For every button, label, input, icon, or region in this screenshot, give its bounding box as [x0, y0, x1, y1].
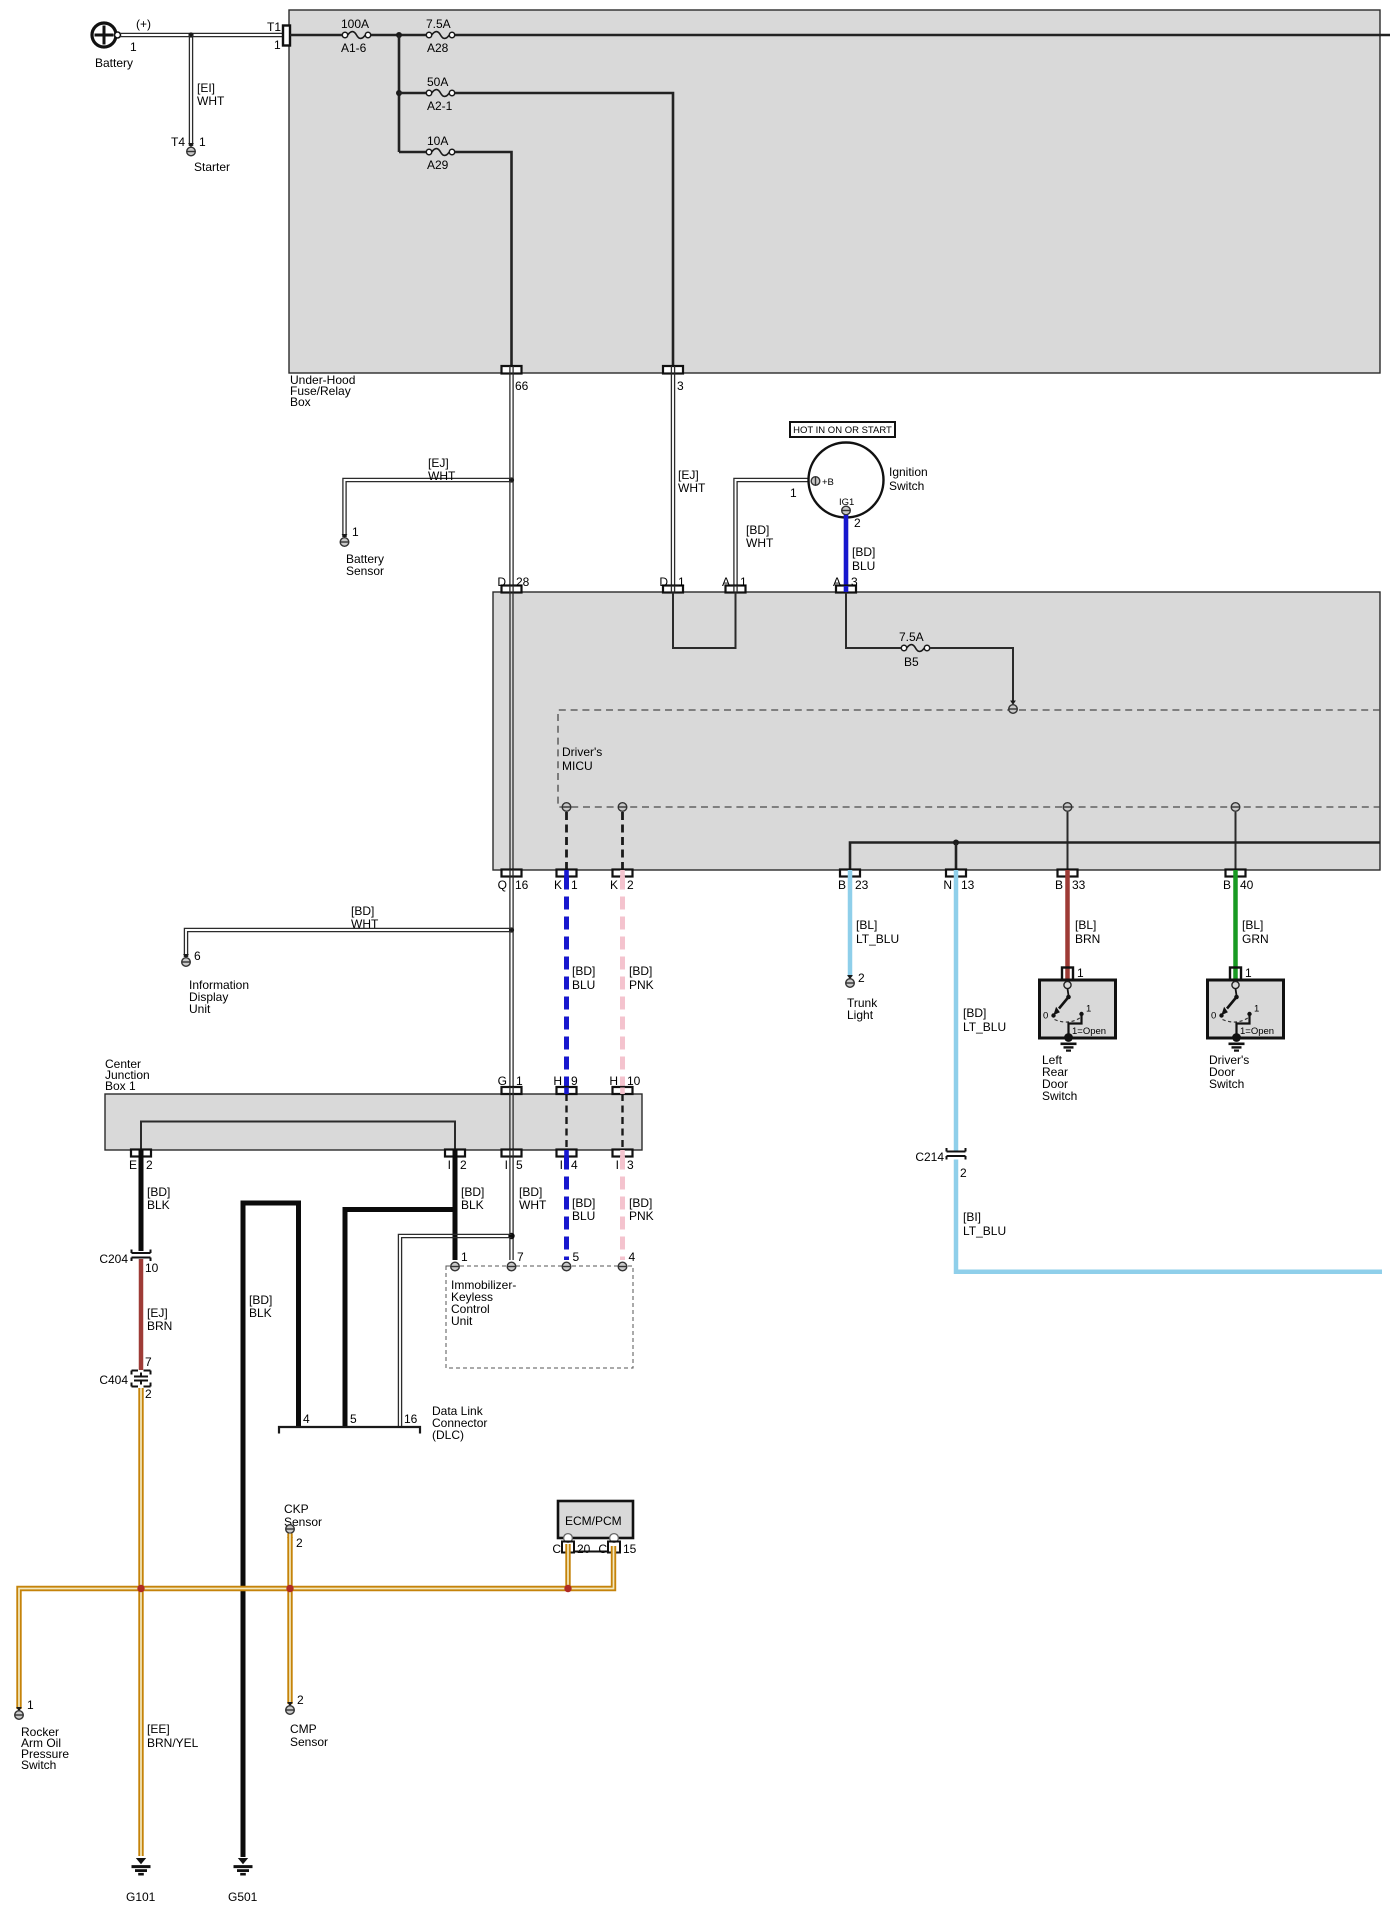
pin I5 — [502, 1150, 524, 1173]
svg-text:[BL]: [BL] — [856, 918, 877, 932]
svg-text:Starter: Starter — [194, 160, 230, 174]
wire overlay pin D28 — [510, 586, 513, 593]
wire overlay H9 pin — [564, 1088, 569, 1095]
svg-text:100A: 100A — [341, 17, 369, 31]
fuse 7.5A B5 — [899, 630, 930, 669]
svg-text:[BD]: [BD] — [746, 523, 769, 537]
wire [EJ] WHT pin66 to D28 — [510, 374, 513, 586]
wire main bus in box1 — [290, 34, 1390, 37]
svg-text:A1-6: A1-6 — [341, 41, 367, 55]
immobilizer pin 7 — [507, 1250, 524, 1271]
svg-text:K: K — [554, 878, 562, 892]
svg-text:[BD]: [BD] — [461, 1185, 484, 1199]
svg-text:1: 1 — [130, 40, 137, 54]
wire overlay E2 pin — [139, 1150, 144, 1157]
immobilizer-keyless control unit — [446, 1266, 633, 1368]
battery — [92, 17, 151, 70]
wire overlay pin Q16 — [510, 870, 513, 877]
svg-text:7: 7 — [517, 1250, 524, 1264]
wire H9 to I4 inside CJB — [565, 1094, 567, 1150]
under-hood fuse/relay box — [289, 10, 1380, 373]
pin H10 — [609, 1074, 640, 1094]
node junction at 50A branch — [396, 90, 402, 96]
wire CKP to CMP — [287, 1534, 292, 1705]
wire battery to T1 — [120, 33, 285, 36]
svg-text:(+): (+) — [136, 17, 151, 31]
pin Q16 — [498, 870, 529, 893]
dashed stub wire to K1 — [565, 812, 568, 869]
pin D28 — [497, 575, 529, 593]
svg-text:GRN: GRN — [1242, 932, 1269, 946]
wire [EJ] BRN C204 to C404 — [141, 1259, 172, 1370]
wire branch down — [398, 35, 401, 152]
svg-text:[BD]: [BD] — [519, 1185, 542, 1199]
svg-text:[BD]: [BD] — [629, 1196, 652, 1210]
svg-text:5: 5 — [516, 1158, 523, 1172]
dashed stub wire to K2 — [621, 812, 624, 869]
svg-text:[BI]: [BI] — [963, 1210, 981, 1224]
svg-text:1: 1 — [27, 1698, 34, 1712]
wire bus to B23/N13 — [850, 843, 1380, 870]
svg-text:16: 16 — [404, 1412, 418, 1426]
wire [BL] GRN B40 to driver's door switch — [1236, 877, 1269, 981]
svg-text:33: 33 — [1072, 878, 1086, 892]
svg-text:2: 2 — [297, 1693, 304, 1707]
wire G1 to I5 inside CJB — [510, 1094, 513, 1150]
wire overlay A3 pin — [844, 586, 849, 592]
pin I3 — [613, 1150, 635, 1173]
svg-text:16: 16 — [515, 878, 529, 892]
MICU pin B40 stub — [1231, 803, 1240, 812]
svg-text:2: 2 — [296, 1536, 303, 1550]
svg-text:LT_BLU: LT_BLU — [963, 1224, 1006, 1238]
wire [BD] BLK I2 net to immobilizer pin1 and DLC 5 — [345, 1157, 484, 1427]
wire [EE] BRN/YEL orange bus — [19, 1546, 614, 1709]
wire [BD] WHT A1 to ignition +B — [734, 478, 811, 585]
ECM/PCM — [558, 1501, 633, 1542]
svg-text:10: 10 — [627, 1074, 641, 1088]
svg-text:Ignition: Ignition — [889, 465, 928, 479]
wire [BD] BLU K1 to H9 — [567, 877, 596, 1088]
wire E2 to I2 inside CJB — [141, 1122, 455, 1150]
svg-text:E: E — [129, 1158, 137, 1172]
wire [EI] WHT to starter — [189, 35, 225, 146]
svg-text:Switch: Switch — [1209, 1077, 1244, 1091]
wire overlay B23 pin — [848, 870, 853, 877]
svg-text:2: 2 — [145, 1387, 152, 1401]
ground G101 — [126, 1858, 156, 1904]
pin I2 — [445, 1150, 467, 1173]
wire branch to DLC 16 — [398, 1234, 511, 1426]
trunk light terminal — [846, 971, 879, 1022]
svg-text:A: A — [722, 575, 730, 589]
svg-text:BLU: BLU — [572, 978, 595, 992]
pin K2 — [610, 870, 634, 893]
pin N13 — [943, 870, 974, 893]
svg-text:50A: 50A — [427, 75, 448, 89]
svg-text:7: 7 — [145, 1355, 152, 1369]
svg-text:4: 4 — [571, 1158, 578, 1172]
wire overlay K2 pin — [620, 870, 625, 877]
svg-text:PNK: PNK — [629, 978, 654, 992]
svg-text:9: 9 — [571, 1074, 578, 1088]
center junction box 1 — [105, 1094, 642, 1150]
svg-text:WHT: WHT — [197, 94, 225, 108]
wire branch to information display unit — [184, 928, 511, 957]
svg-text:Sensor: Sensor — [290, 1735, 328, 1749]
svg-text:[EI]: [EI] — [197, 81, 215, 95]
svg-text:Q: Q — [498, 878, 507, 892]
svg-text:1: 1 — [740, 575, 747, 589]
svg-text:D: D — [497, 575, 506, 589]
connector C404 — [132, 1371, 151, 1387]
pin B23 — [838, 870, 869, 893]
svg-text:BLK: BLK — [461, 1198, 484, 1212]
wire [BI] LT_BLU C214 to right — [956, 1160, 1382, 1272]
svg-text:B: B — [1223, 878, 1231, 892]
wire H10 to I3 inside CJB — [621, 1094, 623, 1150]
pin B33 — [1055, 870, 1086, 893]
fuse 50A A2-1 — [426, 75, 454, 113]
MICU pin B33 stub — [1063, 803, 1072, 812]
svg-text:[EE]: [EE] — [147, 1722, 170, 1736]
HOT IN ON OR START tag — [790, 422, 895, 437]
svg-text:20: 20 — [577, 1542, 591, 1556]
svg-text:Light: Light — [847, 1008, 874, 1022]
CKP sensor terminal — [284, 1502, 322, 1550]
wire [BD] PNK I3 to immobilizer pin4 — [623, 1157, 654, 1261]
pin A1 — [722, 575, 747, 593]
wire overlay I3 pin — [620, 1150, 625, 1157]
svg-text:BRN/YEL: BRN/YEL — [147, 1736, 199, 1750]
svg-text:A: A — [833, 575, 841, 589]
svg-text:[BL]: [BL] — [1075, 918, 1096, 932]
wire overlay B33 pin — [1065, 870, 1070, 877]
wire C20 stub — [565, 1544, 570, 1589]
svg-text:10A: 10A — [427, 134, 448, 148]
svg-text:2: 2 — [858, 971, 865, 985]
junction battery sensor branch — [509, 477, 514, 482]
pin G1 — [498, 1074, 523, 1094]
wire C404 to G101 — [141, 1388, 199, 1856]
junction IDU branch — [509, 927, 514, 932]
wire overlay N13 pin — [954, 870, 959, 877]
pin C 15 — [574, 1542, 637, 1557]
immobilizer pin 4 — [618, 1250, 635, 1271]
svg-text:T1: T1 — [267, 20, 281, 34]
wire [BD] BLU I4 to immobilizer pin5 — [567, 1157, 596, 1261]
wire B33 stub — [1067, 812, 1069, 870]
svg-text:3: 3 — [851, 575, 858, 589]
svg-text:15: 15 — [623, 1542, 637, 1556]
wire overlay B40 pin — [1233, 870, 1238, 877]
svg-text:HOT IN ON OR START: HOT IN ON OR START — [793, 425, 892, 436]
wire to 50A fuse — [399, 92, 426, 95]
svg-text:Switch: Switch — [21, 1758, 56, 1772]
svg-text:I: I — [616, 1158, 619, 1172]
connector T1 — [267, 20, 290, 52]
svg-text:Switch: Switch — [889, 479, 924, 493]
immobilizer pin 1 — [451, 1250, 468, 1271]
svg-text:BLK: BLK — [249, 1306, 272, 1320]
wire [BD] BLK E2 to C204 — [141, 1157, 170, 1252]
svg-text:2: 2 — [854, 516, 861, 530]
svg-text:(DLC): (DLC) — [432, 1428, 464, 1442]
svg-text:10: 10 — [145, 1261, 159, 1275]
svg-text:Unit: Unit — [451, 1314, 473, 1328]
ignition switch — [790, 443, 928, 531]
CMP sensor terminal — [286, 1693, 328, 1749]
svg-text:2: 2 — [627, 878, 634, 892]
svg-text:N: N — [943, 878, 952, 892]
svg-text:T4: T4 — [171, 135, 185, 149]
svg-text:WHT: WHT — [678, 481, 706, 495]
wire overlay pin G1 — [510, 1087, 513, 1094]
wire overlay pin D1 — [671, 586, 674, 593]
svg-text:4: 4 — [629, 1250, 636, 1264]
wire overlay K1 pin — [564, 870, 569, 877]
MICU pin (from B5) — [1009, 701, 1018, 714]
wire A3 to fuse B5 — [846, 593, 901, 649]
svg-text:40: 40 — [1240, 878, 1254, 892]
svg-text:BLK: BLK — [147, 1198, 170, 1212]
svg-text:WHT: WHT — [428, 469, 456, 483]
wire [BD] WHT Q16 to G1 — [351, 877, 513, 1088]
svg-text:1: 1 — [352, 525, 359, 539]
svg-text:3: 3 — [677, 379, 684, 393]
wire overlay pin 3 — [671, 366, 674, 374]
svg-text:1: 1 — [790, 486, 797, 500]
pin D1 — [659, 575, 685, 593]
driver's door switch — [1208, 966, 1284, 1051]
svg-text:[BD]: [BD] — [351, 904, 374, 918]
fuse 10A A29 — [426, 134, 454, 172]
fuse 7.5A A28 — [426, 17, 455, 55]
wire overlay H10 pin — [620, 1088, 625, 1095]
wire [BD] WHT I5 to immobilizer pin7 — [510, 1157, 547, 1261]
junction orange at CKP — [286, 1585, 293, 1592]
wire overlay pin 66 — [510, 366, 513, 374]
wire 10A to pin 66 — [455, 152, 512, 366]
svg-text:2: 2 — [960, 1166, 967, 1180]
svg-text:+B: +B — [822, 477, 834, 488]
svg-text:G501: G501 — [228, 1890, 258, 1904]
pin 3 — [663, 366, 684, 393]
svg-text:28: 28 — [516, 575, 530, 589]
svg-text:PNK: PNK — [629, 1209, 654, 1223]
left rear door switch — [1040, 966, 1116, 1051]
svg-text:13: 13 — [961, 878, 975, 892]
svg-text:Box: Box — [290, 395, 311, 409]
svg-text:WHT: WHT — [746, 536, 774, 550]
svg-text:Battery: Battery — [95, 56, 133, 70]
driver's MICU outer box — [493, 592, 1380, 870]
pin 66 — [502, 366, 529, 393]
junction orange at C20 — [564, 1585, 571, 1592]
svg-text:1: 1 — [516, 1074, 523, 1088]
svg-text:MICU: MICU — [562, 759, 593, 773]
svg-text:BRN: BRN — [1075, 932, 1100, 946]
battery sensor terminal — [340, 525, 384, 578]
svg-text:2: 2 — [146, 1158, 153, 1172]
wire to 10A fuse — [399, 151, 426, 154]
pin C 20 — [552, 1542, 590, 1557]
wire [BD] PNK K2 to H10 — [623, 877, 654, 1088]
svg-text:[BD]: [BD] — [572, 1196, 595, 1210]
pin I4 — [557, 1150, 579, 1173]
svg-text:1: 1 — [678, 575, 685, 589]
svg-text:Sensor: Sensor — [346, 564, 384, 578]
svg-text:ECM/PCM: ECM/PCM — [565, 1514, 622, 1528]
junction battery/starter — [188, 32, 193, 37]
svg-text:B: B — [1055, 878, 1063, 892]
wire [BD] LT_BLU N13 to C214 — [956, 877, 1006, 1153]
svg-text:LT_BLU: LT_BLU — [963, 1020, 1006, 1034]
wire D1 to A1 inside MICU box — [673, 593, 736, 649]
data link connector (DLC) — [279, 1404, 487, 1442]
svg-text:[BL]: [BL] — [1242, 918, 1263, 932]
svg-text:2: 2 — [460, 1158, 467, 1172]
svg-text:[BD]: [BD] — [147, 1185, 170, 1199]
svg-text:BLU: BLU — [852, 559, 875, 573]
wire [EJ] WHT pin3 to D1 — [671, 374, 706, 586]
pin H9 — [553, 1074, 578, 1094]
svg-text:I: I — [560, 1158, 563, 1172]
fuse 100A A1-6 — [341, 17, 371, 55]
svg-text:[BD]: [BD] — [852, 545, 875, 559]
pin E2 — [129, 1150, 153, 1173]
svg-text:I: I — [448, 1158, 451, 1172]
svg-text:H: H — [553, 1074, 562, 1088]
svg-text:C214: C214 — [915, 1150, 944, 1164]
wire [BL] BRN B33 to left rear door switch — [1068, 877, 1101, 981]
svg-text:BRN: BRN — [147, 1319, 172, 1333]
junction N13 — [953, 840, 959, 846]
svg-text:B: B — [838, 878, 846, 892]
svg-text:BLU: BLU — [572, 1209, 595, 1223]
svg-text:A29: A29 — [427, 158, 449, 172]
svg-text:1: 1 — [571, 878, 578, 892]
ground G501 — [228, 1858, 258, 1904]
starter terminal T4 — [171, 135, 230, 174]
wire overlay pin I5 — [510, 1150, 513, 1157]
wire [BD] BLU IG1 to A3 — [846, 515, 875, 586]
wire 50A to pin 3 — [455, 93, 673, 366]
wire [EJ] WHT branch to battery sensor — [343, 456, 512, 537]
driver's MICU dashed block — [558, 710, 1380, 807]
svg-text:WHT: WHT — [519, 1198, 547, 1212]
svg-text:[BD]: [BD] — [629, 964, 652, 978]
connector C204 — [132, 1250, 151, 1262]
wire overlay I2 pin — [453, 1150, 458, 1157]
svg-text:7.5A: 7.5A — [426, 17, 451, 31]
svg-text:4: 4 — [303, 1412, 310, 1426]
wire B40 stub — [1235, 812, 1237, 870]
svg-text:1: 1 — [274, 38, 281, 52]
svg-text:23: 23 — [855, 878, 869, 892]
wire [BD] BLK G501 net to DLC 4 — [243, 1203, 299, 1857]
svg-text:1: 1 — [461, 1250, 468, 1264]
svg-text:G: G — [498, 1074, 507, 1088]
connector C214 — [947, 1148, 966, 1160]
svg-text:CMP: CMP — [290, 1722, 317, 1736]
svg-text:D: D — [659, 575, 668, 589]
MICU pin K2 stub — [618, 803, 627, 812]
information display unit terminal — [182, 949, 249, 1016]
svg-text:6: 6 — [194, 949, 201, 963]
svg-text:LT_BLU: LT_BLU — [856, 932, 899, 946]
svg-text:[EJ]: [EJ] — [147, 1306, 168, 1320]
svg-text:A28: A28 — [427, 41, 449, 55]
wire overlay pin A1 — [734, 586, 737, 593]
svg-text:[BD]: [BD] — [572, 964, 595, 978]
svg-text:C: C — [598, 1542, 607, 1556]
pin K1 — [554, 870, 578, 893]
wire [BL] LT_BLU B23 to trunk light — [850, 877, 899, 978]
node junction at A28 branch — [396, 32, 402, 38]
svg-text:Unit: Unit — [189, 1002, 211, 1016]
pin B40 — [1223, 870, 1254, 893]
svg-text:A2-1: A2-1 — [427, 99, 453, 113]
svg-text:Driver's: Driver's — [562, 745, 602, 759]
svg-text:K: K — [610, 878, 618, 892]
svg-text:G101: G101 — [126, 1890, 156, 1904]
svg-text:[BD]: [BD] — [249, 1293, 272, 1307]
svg-text:1: 1 — [199, 135, 206, 149]
MICU pin K1 stub — [562, 803, 571, 812]
svg-text:C404: C404 — [99, 1373, 128, 1387]
svg-text:7.5A: 7.5A — [899, 630, 924, 644]
svg-text:CKP: CKP — [284, 1502, 309, 1516]
junction orange at G101 — [137, 1585, 144, 1592]
junction DLC16 branch — [508, 1233, 514, 1239]
svg-text:H: H — [609, 1074, 618, 1088]
wire N13 stub — [955, 843, 958, 870]
svg-text:3: 3 — [627, 1158, 634, 1172]
svg-text:66: 66 — [515, 379, 529, 393]
svg-text:[BD]: [BD] — [963, 1006, 986, 1020]
svg-text:5: 5 — [573, 1250, 580, 1264]
svg-text:B5: B5 — [904, 655, 919, 669]
wire overlay I4 pin — [564, 1150, 569, 1157]
svg-text:C204: C204 — [99, 1252, 128, 1266]
pin A3 — [833, 575, 858, 593]
svg-text:[EJ]: [EJ] — [428, 456, 449, 470]
wire fuse B5 to MICU pin — [930, 648, 1013, 701]
svg-text:5: 5 — [350, 1412, 357, 1426]
svg-text:[EJ]: [EJ] — [678, 468, 699, 482]
svg-text:C: C — [552, 1542, 561, 1556]
svg-text:I: I — [505, 1158, 508, 1172]
svg-text:Switch: Switch — [1042, 1089, 1077, 1103]
immobilizer pin 5 — [562, 1250, 579, 1271]
wire D28 to Q16 inside MICU box — [510, 593, 513, 870]
svg-text:Box 1: Box 1 — [105, 1079, 136, 1093]
rocker arm oil pressure switch terminal — [15, 1698, 70, 1772]
